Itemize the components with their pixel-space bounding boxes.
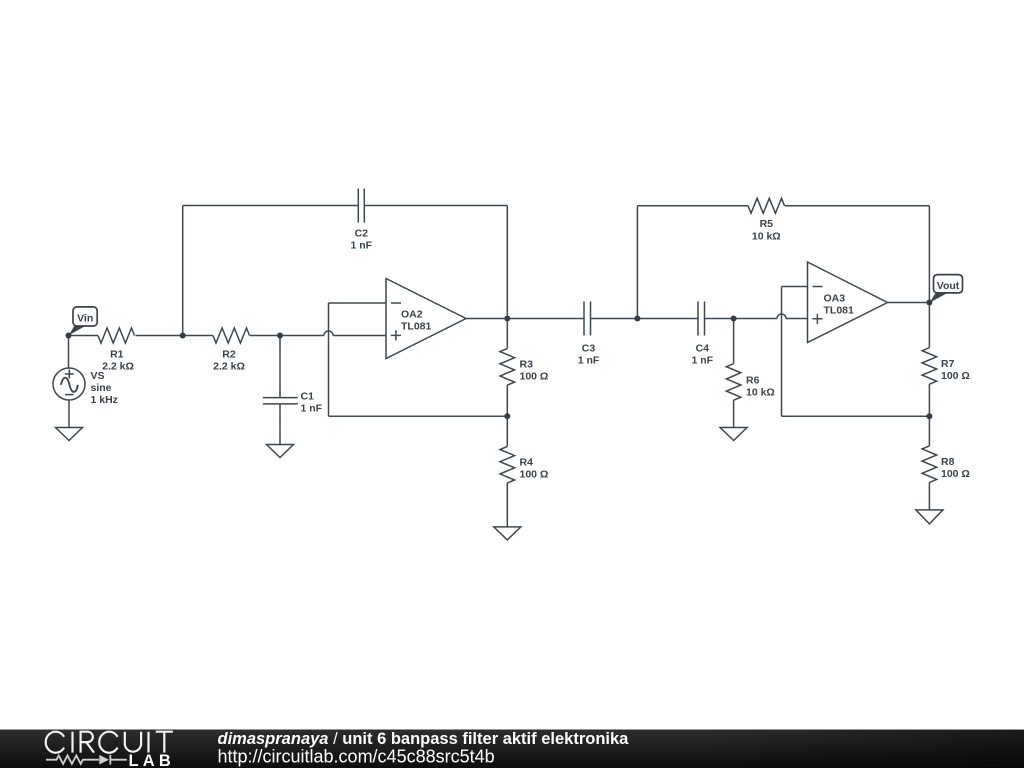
svg-text:LAB: LAB (129, 752, 176, 768)
svg-text:dimaspranaya / unit 6 banpass: dimaspranaya / unit 6 banpass filter akt… (218, 730, 630, 748)
svg-text:100 Ω: 100 Ω (520, 469, 549, 481)
svg-text:C2: C2 (355, 228, 369, 240)
svg-text:C3: C3 (582, 343, 596, 355)
svg-text:R2: R2 (222, 349, 236, 361)
svg-text:1 nF: 1 nF (301, 403, 323, 415)
svg-text:R4: R4 (520, 457, 534, 469)
svg-text:R1: R1 (110, 349, 124, 361)
svg-text:TL081: TL081 (824, 305, 855, 317)
svg-text:1 kHz: 1 kHz (91, 394, 118, 406)
svg-text:http://circuitlab.com/c45c88sr: http://circuitlab.com/c45c88src5t4b (218, 747, 495, 767)
svg-text:VS: VS (91, 370, 105, 382)
svg-text:R6: R6 (746, 375, 760, 387)
svg-text:R8: R8 (941, 456, 955, 468)
svg-text:1 nF: 1 nF (351, 240, 373, 252)
svg-text:Vin: Vin (77, 313, 93, 325)
svg-text:100 Ω: 100 Ω (520, 371, 549, 383)
svg-text:TL081: TL081 (401, 321, 432, 333)
svg-text:100 Ω: 100 Ω (941, 370, 970, 382)
svg-text:1 nF: 1 nF (578, 355, 600, 367)
svg-text:R3: R3 (520, 359, 534, 371)
svg-text:Vout: Vout (937, 280, 960, 292)
svg-text:100 Ω: 100 Ω (941, 468, 970, 480)
svg-text:C4: C4 (696, 343, 710, 355)
svg-text:OA3: OA3 (824, 292, 846, 304)
svg-text:R7: R7 (941, 358, 955, 370)
svg-text:R5: R5 (760, 218, 774, 230)
svg-text:C1: C1 (301, 391, 315, 403)
svg-text:1 nF: 1 nF (692, 355, 714, 367)
svg-text:2.2 kΩ: 2.2 kΩ (213, 361, 245, 373)
svg-text:2.2 kΩ: 2.2 kΩ (102, 361, 134, 373)
svg-text:10 kΩ: 10 kΩ (746, 387, 775, 399)
svg-text:10 kΩ: 10 kΩ (752, 231, 781, 243)
svg-text:sine: sine (91, 382, 112, 394)
svg-text:OA2: OA2 (401, 308, 423, 320)
